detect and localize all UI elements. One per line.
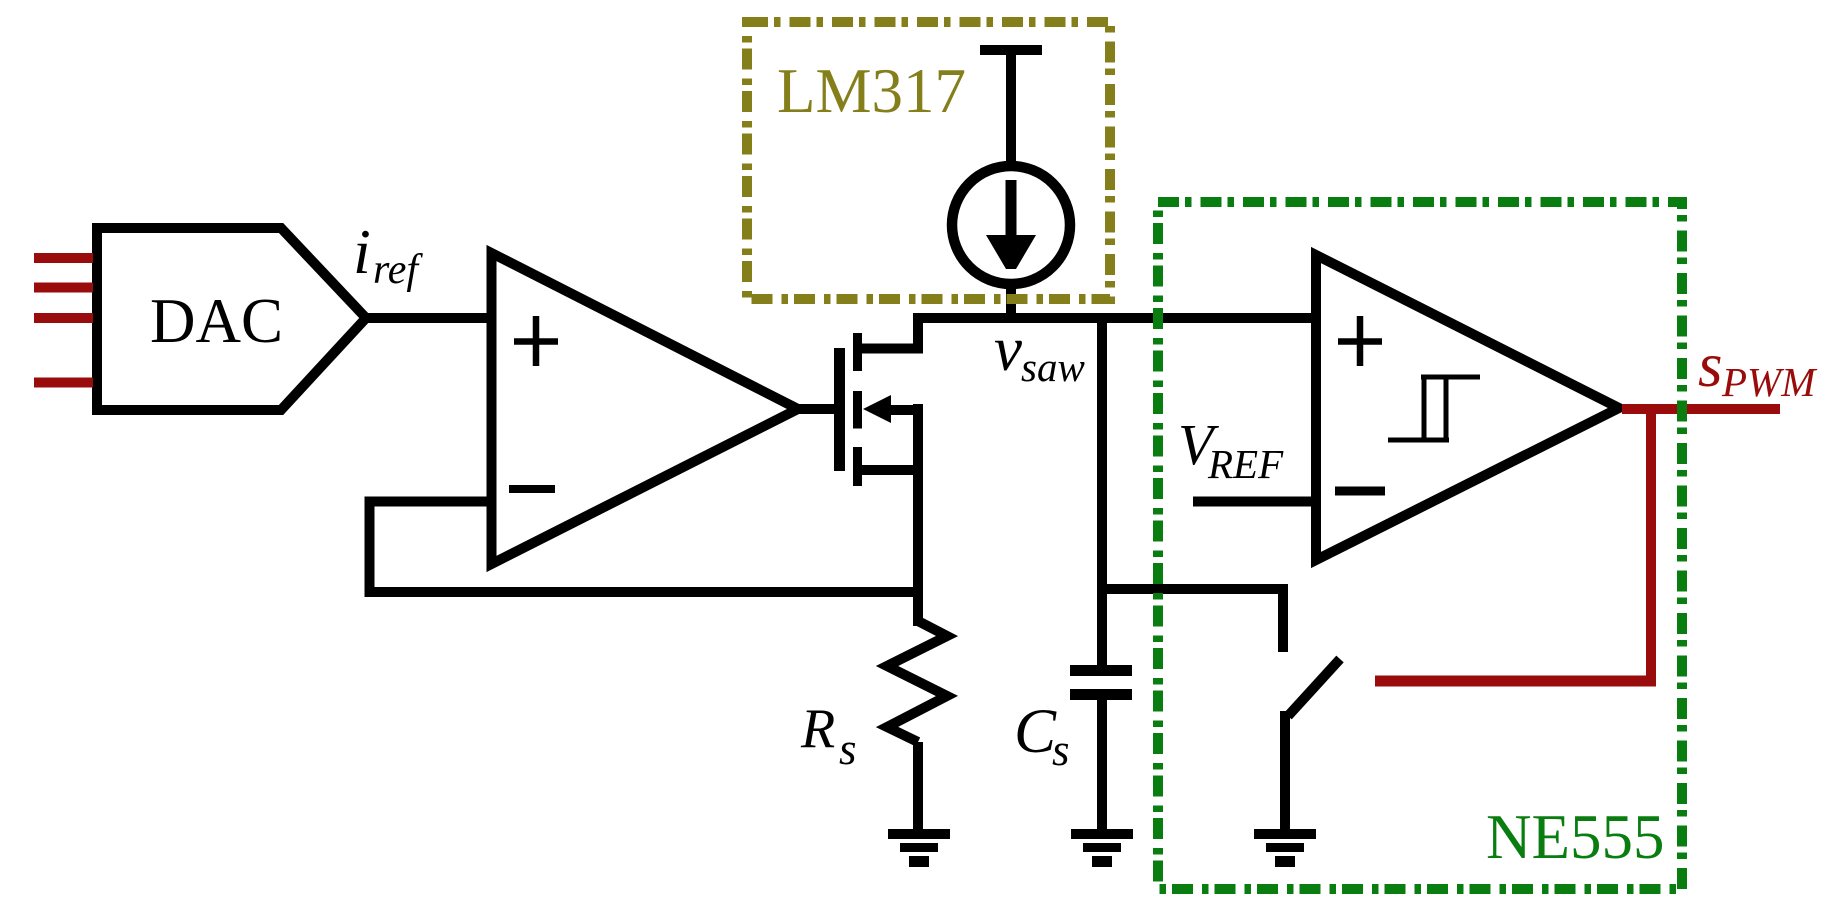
svg-text:ref: ref	[373, 247, 423, 293]
LM317 box	[747, 22, 1110, 299]
wire v_saw node down to capacitor	[1097, 318, 1107, 667]
svg-text:NE555: NE555	[1486, 802, 1664, 872]
svg-text:PWM: PWM	[1721, 359, 1818, 405]
resistor Rs zigzag	[887, 621, 947, 742]
NE555 box	[1158, 202, 1682, 889]
wire DAC to op-amp + input	[366, 313, 496, 323]
wire comparator output to s_PWM (red)	[1622, 404, 1780, 414]
svg-text:DAC: DAC	[150, 286, 283, 356]
DAC input bit line 1	[34, 253, 93, 263]
wire V_REF to comparator minus input	[1193, 497, 1316, 507]
wire op-amp output to gate	[798, 404, 840, 414]
svg-text:s: s	[1698, 330, 1723, 400]
transistor M1 drain wire	[853, 318, 918, 349]
comparator U2	[1316, 255, 1619, 560]
wire Cs node to switch	[1102, 589, 1283, 652]
ground for Cs	[1071, 829, 1133, 867]
ground for Rs	[888, 829, 950, 867]
svg-text:s: s	[839, 724, 857, 774]
comparator plus sign	[1338, 316, 1382, 366]
transistor M1 body arrow	[863, 395, 891, 423]
svg-text:s: s	[1052, 725, 1070, 775]
current source I1 arrow	[1006, 180, 1017, 240]
comparator minus sign	[1335, 487, 1385, 496]
svg-text:REF: REF	[1207, 441, 1284, 487]
resistor Rs label	[800, 698, 857, 774]
node s_PWM label	[1698, 330, 1818, 405]
node i_ref label	[353, 216, 423, 293]
wire current source to rail	[1006, 283, 1016, 323]
capacitor Cs label	[1014, 696, 1070, 775]
capacitor Cs plates	[1070, 665, 1132, 676]
capacitor Cs lower lead	[1097, 700, 1107, 834]
svg-text:i: i	[353, 216, 371, 287]
op-amp U1	[492, 253, 799, 564]
current source I1 circle	[952, 166, 1070, 284]
svg-text:saw: saw	[1021, 344, 1085, 390]
svg-text:v: v	[994, 314, 1022, 384]
resistor Rs lower lead	[913, 742, 923, 834]
transistor M1 source wire	[853, 465, 918, 475]
wire v_saw rail	[913, 313, 1316, 323]
node V_REF label	[1178, 412, 1284, 487]
wire source down to junction	[913, 404, 923, 626]
svg-text:LM317: LM317	[777, 56, 966, 126]
op-amp minus sign	[509, 485, 555, 493]
DAC input bit line 3	[34, 313, 93, 323]
DAC input bit line 2	[34, 283, 93, 293]
op-amp plus sign	[514, 316, 558, 366]
transistor M1 gate bar	[834, 348, 845, 471]
wire s_PWM feedback drop (red)	[1646, 404, 1656, 681]
ground for switch	[1254, 829, 1316, 867]
transistor M1 channel segments	[853, 333, 862, 486]
wire body to source	[889, 405, 918, 415]
wire s_PWM to switch control (red)	[1375, 676, 1656, 687]
switch S1 blade	[1288, 659, 1340, 716]
node v_saw label	[994, 314, 1085, 390]
svg-text:C: C	[1014, 696, 1057, 766]
DAC block	[97, 228, 366, 410]
wire op-amp minus feedback	[370, 502, 924, 593]
switch S1 lower lead	[1280, 711, 1290, 834]
comparator hysteresis symbol	[1388, 377, 1480, 440]
current source I1 supply T-bar	[980, 45, 1042, 55]
DAC input bit line 4	[34, 378, 93, 388]
svg-text:R: R	[800, 698, 835, 760]
